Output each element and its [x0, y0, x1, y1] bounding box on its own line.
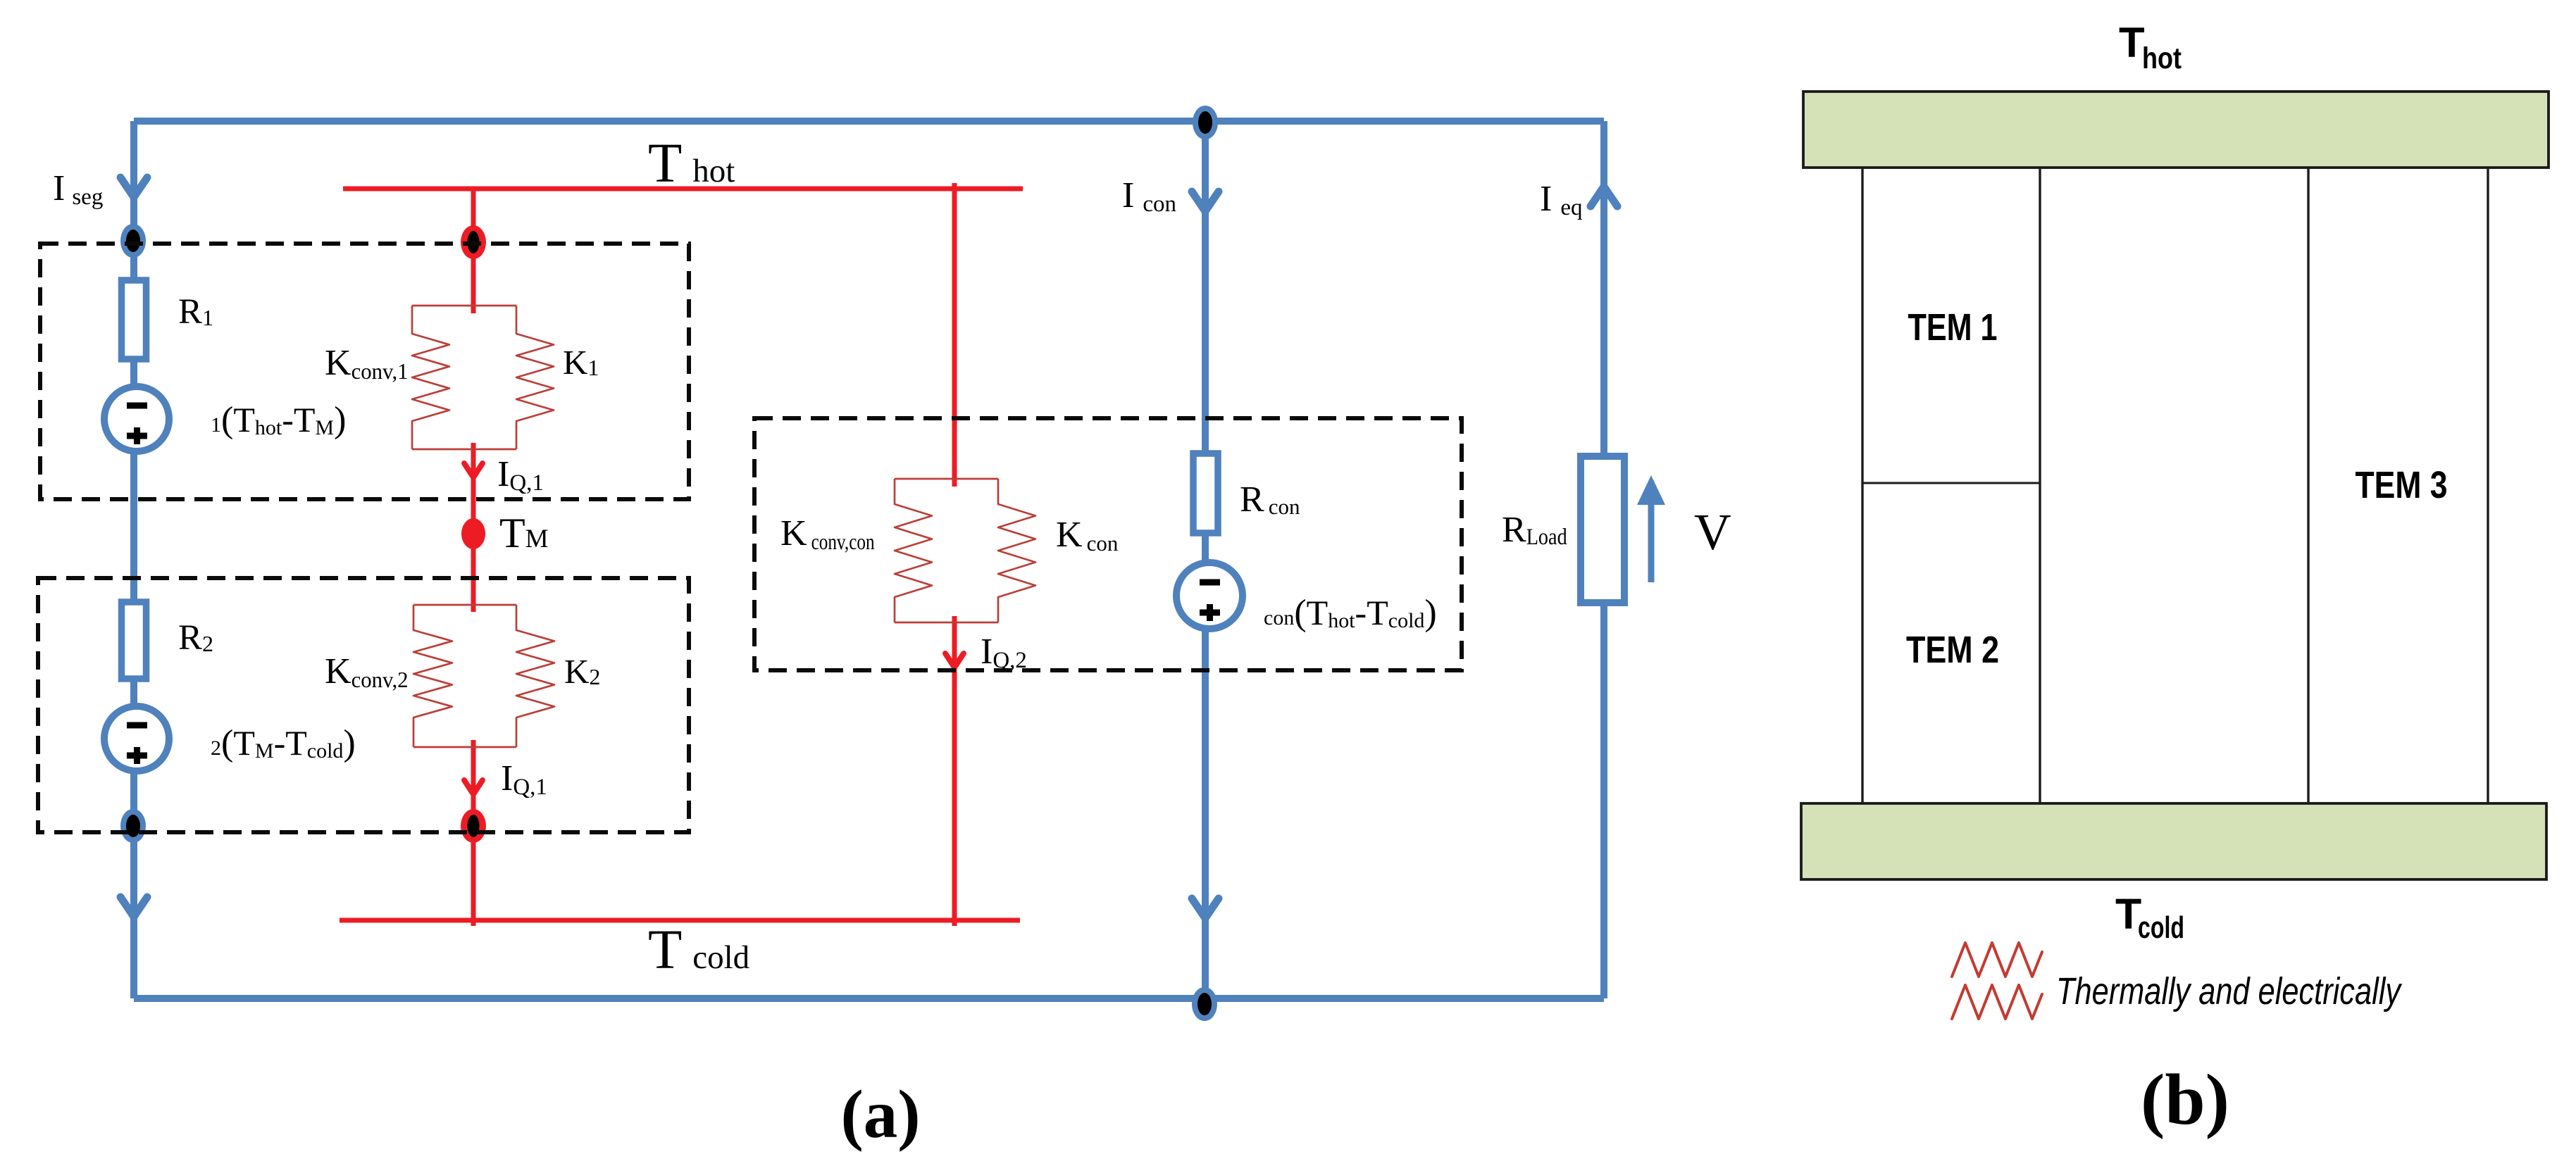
- resistor R_con: [1193, 453, 1218, 533]
- green plate T_cold: [1801, 803, 2546, 879]
- TEM column line 3: [2307, 168, 2309, 803]
- dashed box: conventional TEM element: [754, 418, 1462, 670]
- node: blue junction bottom-left: [124, 813, 142, 839]
- divider line between TEM1 and TEM2: [1862, 482, 2040, 484]
- arrow: I_Q,1 heat flow arrow upper (down): [464, 463, 483, 477]
- svg-text:TEM 1: TEM 1: [1908, 306, 1998, 349]
- arrow: I_Q,2 heat flow arrow (down): [945, 653, 964, 667]
- dashed box: segmented TEM element 1: [40, 244, 689, 499]
- wire: red thermal branch 1 segment a: [471, 189, 476, 313]
- thermal resistor pair K_conv,1 parallel K_1: [412, 306, 554, 449]
- arrow: I_Q,1 heat flow arrow lower (down): [464, 780, 483, 794]
- voltage source V1 (alpha1(Thot-TM)): [104, 387, 169, 451]
- wire: red thermal branch 2 segment a: [952, 183, 957, 487]
- svg-text:Thermally and electrically: Thermally and electrically: [2056, 970, 2402, 1013]
- svg-text:(b): (b): [2141, 1060, 2229, 1140]
- voltage source V3 (alpha_con(Thot-Tcold)): [1176, 563, 1243, 629]
- thermal resistor pair K_conv,con parallel K_con: [895, 479, 1035, 622]
- wire: blue top rail: [134, 118, 1604, 125]
- arrow: I_seg current arrow (down): [120, 177, 147, 197]
- TEM column line 4: [2487, 168, 2489, 803]
- wire: blue right branch (I_eq / R_Load): [1600, 121, 1607, 998]
- TEM column line 2: [2039, 168, 2041, 803]
- wire: blue bottom rail: [134, 995, 1604, 1002]
- node: red T_M node: [461, 518, 485, 549]
- wire: red T_cold rail: [340, 918, 1020, 923]
- svg-text:T: T: [2119, 19, 2145, 66]
- svg-text:V: V: [1694, 503, 1731, 560]
- wire: red thermal branch 2 segment b: [952, 616, 957, 926]
- arrow: I_eq current arrow (up): [1591, 187, 1617, 206]
- thermal resistor pair K_conv,2 parallel K_2: [413, 605, 554, 747]
- voltage source V2 (alpha2(TM-Tcold)): [104, 706, 169, 771]
- arrow: I_con current arrow bottom (down): [1192, 898, 1219, 918]
- legend zigzag row 2: [1952, 985, 2042, 1019]
- green plate T_hot: [1803, 92, 2549, 168]
- arrow: I_con current arrow top (down): [1192, 192, 1219, 211]
- resistor R2: [122, 602, 147, 679]
- svg-text:TEM 2: TEM 2: [1906, 629, 1999, 671]
- node: blue junction top-middle: [1196, 109, 1214, 136]
- node: red junction on T_cold branch: [461, 809, 486, 843]
- arrow: V voltage arrow (up) with line: [1637, 475, 1665, 582]
- svg-text:cold: cold: [2138, 910, 2184, 945]
- TEM column line 1: [1861, 168, 1863, 803]
- node: blue junction bottom-middle: [1195, 991, 1214, 1017]
- node: red junction on T_hot branch: [461, 225, 486, 259]
- wire: red thermal branch 1 segment b (through T_M): [471, 443, 476, 612]
- wire: blue middle branch (I_con / R_con): [1202, 121, 1209, 998]
- resistor R_Load: [1581, 456, 1624, 603]
- wire: red thermal branch 1 segment c: [471, 740, 476, 926]
- svg-text:TEM 3: TEM 3: [2356, 464, 2448, 506]
- legend zigzag row 1: [1952, 943, 2042, 977]
- svg-text:(a): (a): [840, 1077, 920, 1152]
- svg-text:hot: hot: [2142, 42, 2182, 75]
- wire: red T_hot rail: [343, 187, 1023, 192]
- node: blue junction top-left: [124, 227, 142, 254]
- dashed box: segmented TEM element 2: [38, 578, 689, 832]
- arrow: left branch bottom arrow (down): [120, 897, 147, 917]
- resistor R1: [122, 280, 147, 359]
- wire: blue left branch (I_seg): [130, 121, 137, 998]
